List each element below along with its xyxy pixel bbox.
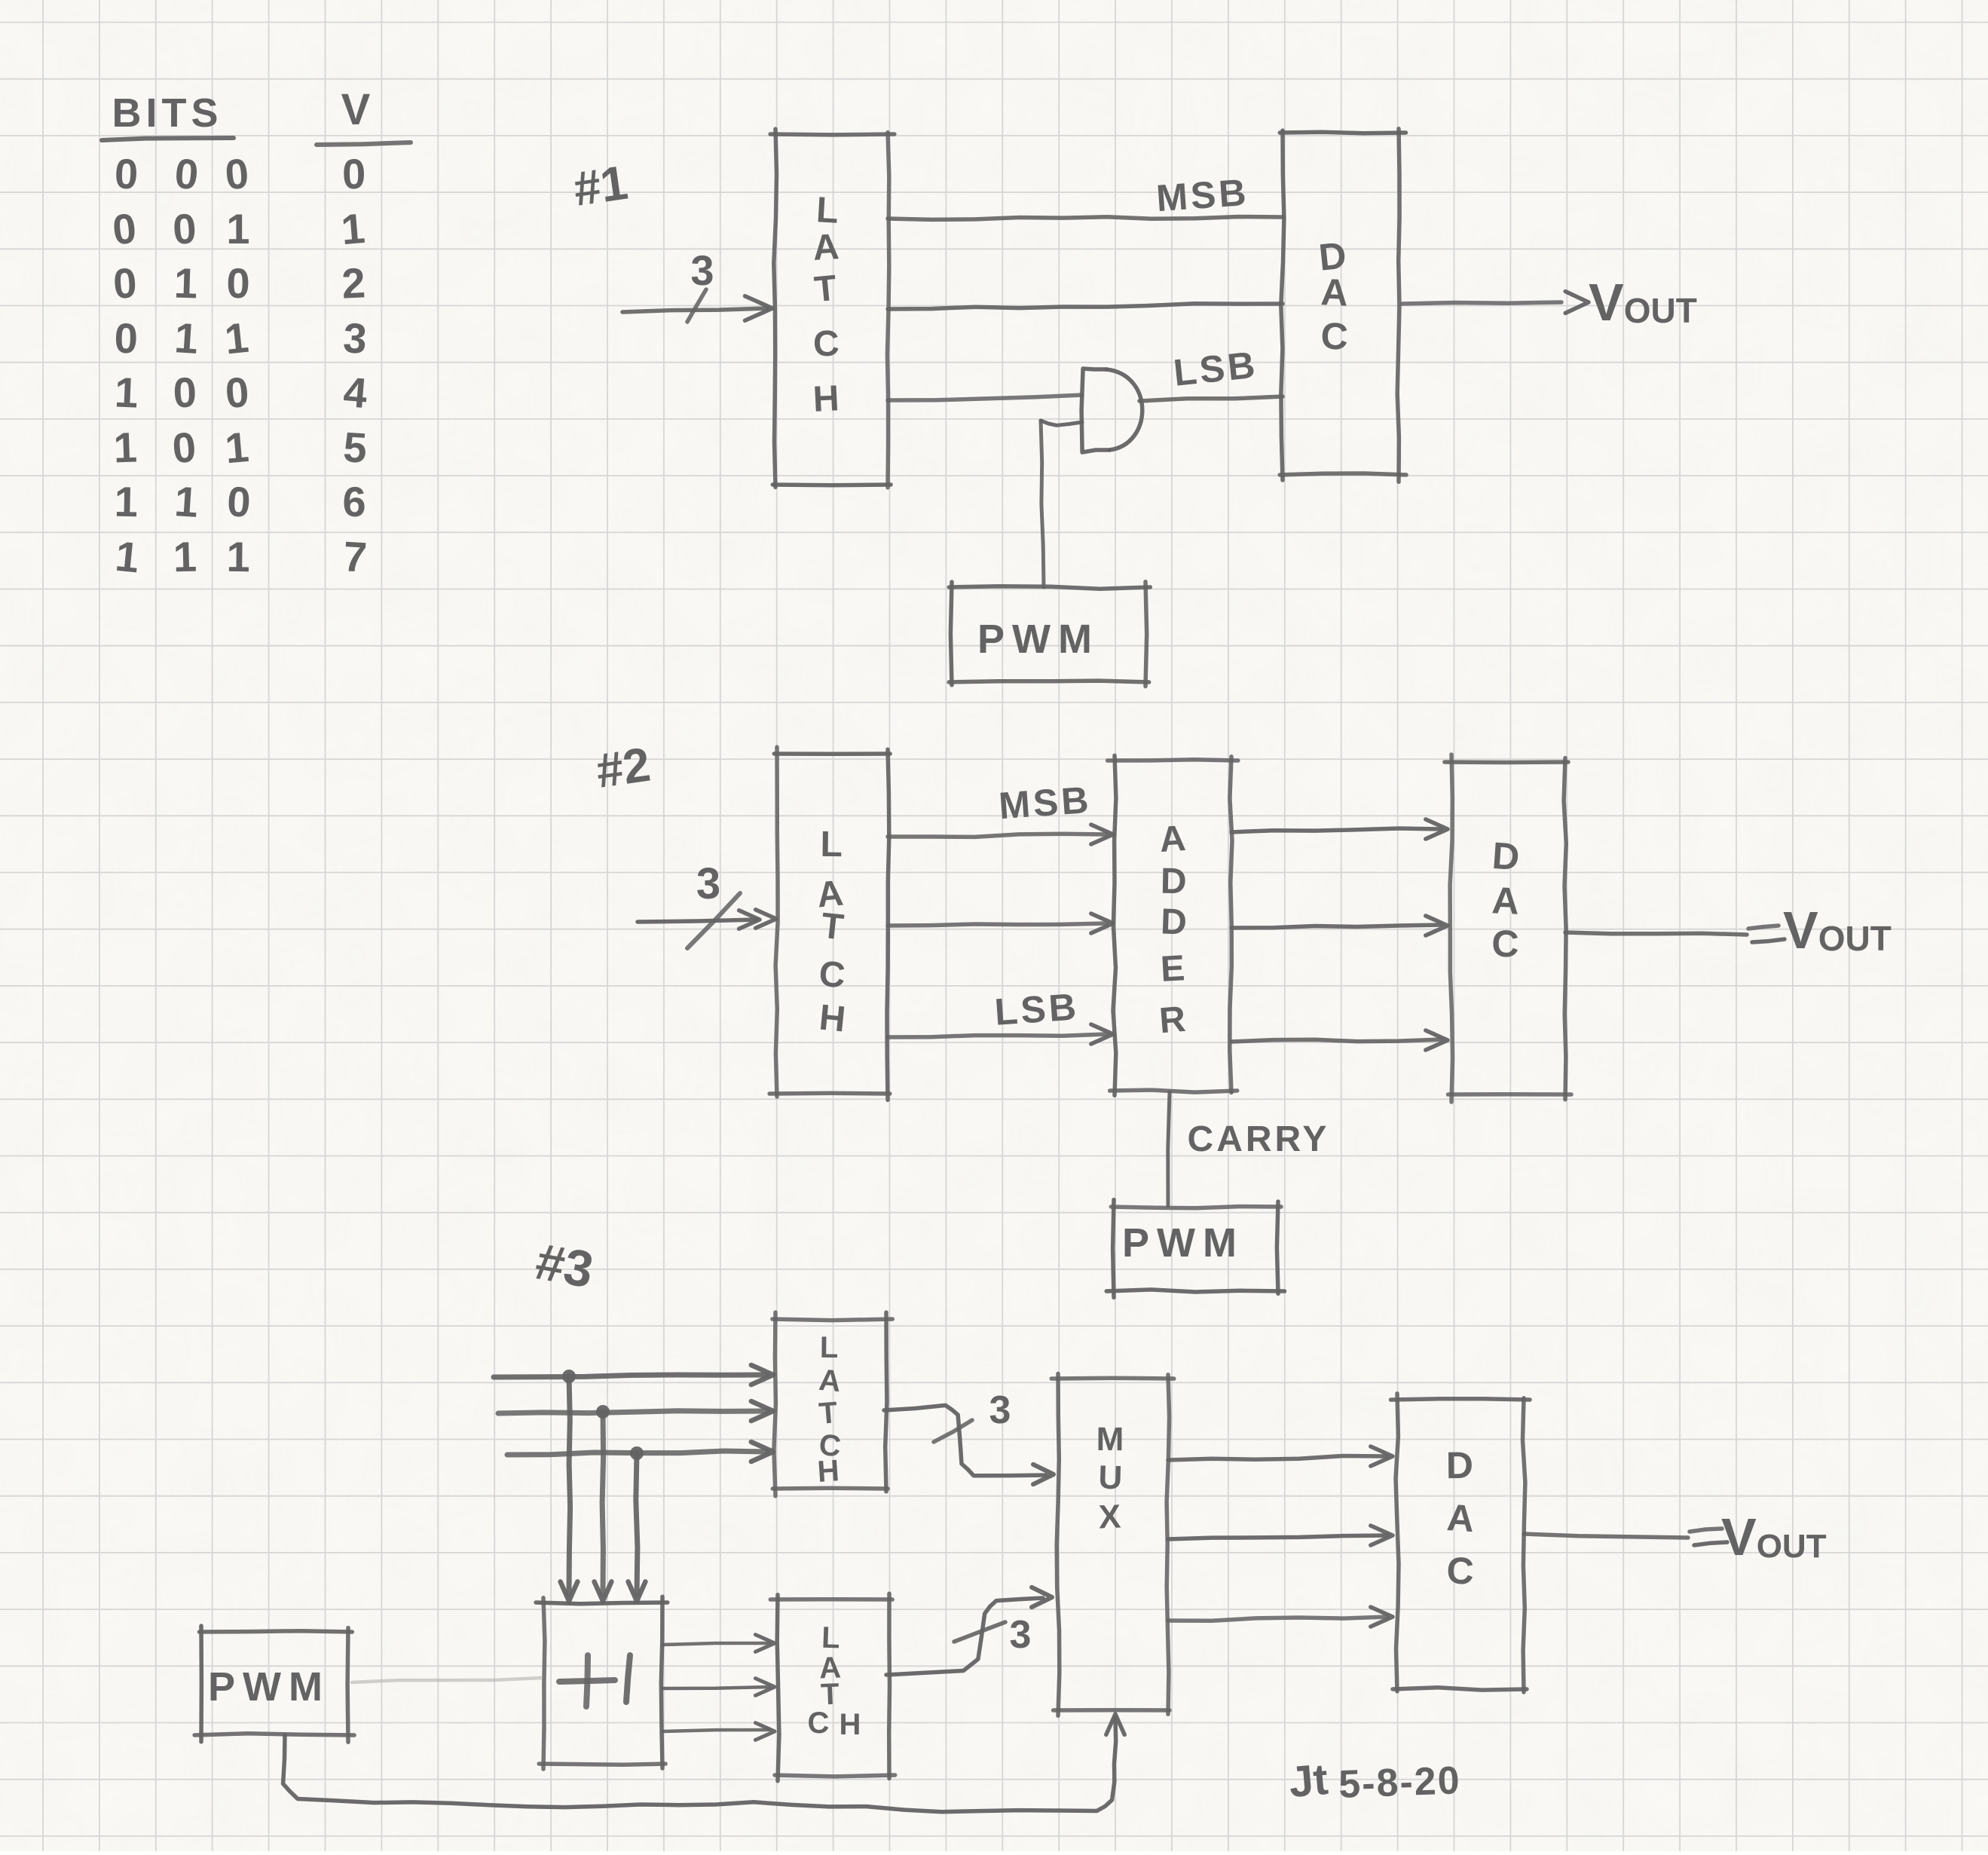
svg-text:#2: #2 — [593, 737, 654, 798]
svg-text:V: V — [341, 85, 371, 134]
svg-text:C: C — [1491, 923, 1519, 966]
svg-text:MSB: MSB — [1155, 171, 1250, 219]
svg-text:#1: #1 — [570, 155, 632, 216]
svg-text:C: C — [812, 323, 840, 364]
svg-text:#3: #3 — [531, 1232, 598, 1299]
svg-text:0: 0 — [226, 259, 250, 307]
svg-text:0: 0 — [223, 149, 250, 198]
svg-text:D: D — [1446, 1444, 1474, 1486]
svg-text:H: H — [818, 998, 848, 1040]
svg-text:L: L — [815, 190, 840, 231]
svg-text:1: 1 — [226, 205, 249, 253]
svg-text:5-8-20: 5-8-20 — [1338, 1759, 1461, 1807]
svg-text:3: 3 — [696, 859, 720, 908]
svg-text:4: 4 — [342, 368, 369, 417]
svg-text:0: 0 — [112, 259, 138, 308]
svg-text:A: A — [1320, 271, 1349, 314]
svg-text:LSB: LSB — [993, 985, 1081, 1033]
svg-text:0: 0 — [114, 149, 139, 197]
svg-text:U: U — [1098, 1459, 1123, 1497]
svg-text:0: 0 — [173, 149, 200, 198]
svg-text:D: D — [1160, 862, 1187, 902]
svg-text:H: H — [816, 1454, 840, 1489]
svg-text:R: R — [1158, 999, 1187, 1042]
svg-text:1: 1 — [173, 259, 198, 308]
svg-text:1: 1 — [114, 478, 139, 526]
svg-text:H: H — [840, 1708, 861, 1741]
svg-text:L: L — [821, 1621, 840, 1655]
svg-text:A: A — [1445, 1496, 1476, 1540]
svg-text:M: M — [1096, 1421, 1124, 1458]
svg-text:3: 3 — [989, 1388, 1011, 1432]
svg-text:1: 1 — [173, 533, 197, 581]
svg-text:CARRY: CARRY — [1188, 1119, 1330, 1159]
svg-text:C: C — [818, 954, 846, 996]
svg-text:1: 1 — [114, 368, 139, 416]
svg-text:H: H — [812, 378, 840, 420]
svg-text:BITS: BITS — [112, 90, 222, 136]
svg-text:D: D — [1491, 834, 1521, 878]
svg-text:1: 1 — [113, 532, 141, 582]
svg-text:Jt: Jt — [1287, 1755, 1330, 1807]
svg-text:6: 6 — [342, 478, 366, 525]
svg-text:MSB: MSB — [997, 779, 1093, 827]
svg-text:0: 0 — [226, 477, 252, 525]
svg-text:PWM: PWM — [977, 617, 1100, 662]
svg-text:0: 0 — [114, 314, 138, 363]
svg-text:A: A — [1491, 879, 1519, 922]
svg-text:1: 1 — [226, 533, 250, 580]
svg-text:T: T — [819, 906, 846, 948]
svg-text:D: D — [1160, 901, 1188, 942]
svg-text:1: 1 — [222, 314, 250, 363]
svg-text:0: 0 — [173, 369, 197, 417]
svg-text:X: X — [1098, 1498, 1121, 1536]
svg-text:L: L — [820, 825, 843, 865]
svg-text:7: 7 — [342, 532, 369, 581]
svg-text:0: 0 — [110, 204, 138, 254]
svg-text:3: 3 — [690, 246, 714, 294]
svg-text:C: C — [1446, 1549, 1475, 1592]
svg-text:LSB: LSB — [1172, 343, 1260, 393]
svg-text:T: T — [812, 268, 838, 311]
svg-text:2: 2 — [341, 259, 366, 307]
svg-text:A: A — [812, 227, 840, 268]
svg-text:0: 0 — [170, 423, 197, 472]
svg-text:C: C — [808, 1707, 830, 1740]
svg-text:PWM: PWM — [1122, 1220, 1244, 1266]
svg-text:3: 3 — [1010, 1613, 1032, 1657]
svg-text:A: A — [1158, 819, 1187, 860]
svg-text:C: C — [1320, 314, 1349, 357]
svg-text:A: A — [818, 1364, 843, 1398]
svg-text:1: 1 — [173, 314, 200, 363]
svg-text:5: 5 — [342, 423, 369, 472]
svg-text:3: 3 — [342, 314, 368, 363]
svg-text:1: 1 — [113, 423, 138, 471]
svg-text:E: E — [1160, 948, 1186, 990]
svg-text:0: 0 — [171, 204, 197, 253]
svg-text:1: 1 — [339, 204, 366, 253]
svg-text:1: 1 — [223, 423, 250, 472]
svg-text:L: L — [820, 1331, 839, 1364]
svg-text:0: 0 — [342, 150, 366, 197]
svg-text:1: 1 — [173, 477, 200, 526]
svg-text:T: T — [818, 1396, 839, 1431]
svg-text:PWM: PWM — [208, 1664, 330, 1710]
svg-text:0: 0 — [224, 368, 251, 417]
